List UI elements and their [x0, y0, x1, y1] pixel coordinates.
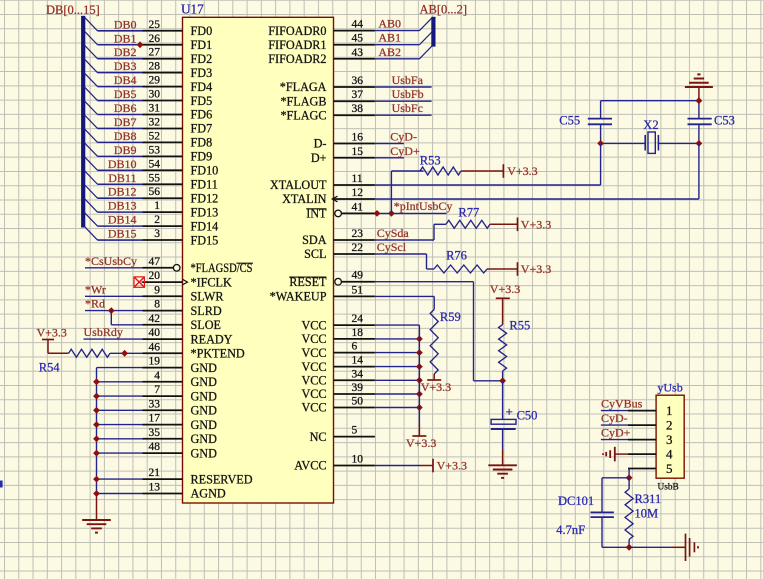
svg-text:XTALOUT: XTALOUT	[270, 178, 327, 192]
svg-text:FIFOADR2: FIFOADR2	[268, 52, 326, 66]
svg-text:D+: D+	[311, 151, 327, 165]
svg-text:FD11: FD11	[191, 177, 218, 191]
svg-text:R311: R311	[635, 492, 662, 506]
svg-text:VCC: VCC	[301, 401, 326, 415]
svg-text:AB1: AB1	[378, 31, 401, 45]
svg-text:R53: R53	[420, 154, 441, 168]
svg-text:GND: GND	[191, 404, 218, 418]
svg-text:3: 3	[666, 432, 673, 447]
svg-text:CyVBus: CyVBus	[601, 397, 643, 411]
svg-text:13: 13	[149, 482, 161, 494]
svg-text:44: 44	[352, 19, 364, 31]
svg-text:36: 36	[352, 75, 364, 87]
svg-text:DB13: DB13	[108, 199, 137, 213]
svg-text:FD12: FD12	[191, 191, 219, 205]
svg-text:1: 1	[154, 200, 160, 212]
svg-text:6: 6	[352, 341, 358, 353]
svg-text:DB12: DB12	[108, 185, 137, 199]
svg-text:FD6: FD6	[191, 108, 213, 122]
svg-text:DB4: DB4	[114, 73, 137, 87]
svg-text:R55: R55	[509, 318, 530, 332]
svg-text:*WAKEUP: *WAKEUP	[270, 290, 327, 304]
svg-text:DB2: DB2	[114, 45, 137, 59]
svg-text:VCC: VCC	[301, 346, 326, 360]
svg-text:DB9: DB9	[114, 143, 137, 157]
svg-text:31: 31	[149, 103, 161, 115]
svg-text:AB[0...2]: AB[0...2]	[420, 2, 468, 16]
svg-text:51: 51	[352, 284, 364, 296]
svg-text:R54: R54	[39, 361, 61, 375]
svg-text:*IFCLK: *IFCLK	[191, 275, 233, 289]
svg-text:10: 10	[352, 454, 364, 466]
svg-text:FD3: FD3	[191, 66, 213, 80]
svg-text:CyD-: CyD-	[601, 411, 628, 425]
svg-text:29: 29	[149, 75, 161, 87]
svg-text:XTALIN: XTALIN	[282, 192, 327, 206]
svg-text:34: 34	[352, 368, 364, 380]
svg-text:3: 3	[154, 228, 160, 240]
svg-text:23: 23	[352, 228, 364, 240]
svg-text:V+3.3: V+3.3	[437, 459, 467, 473]
svg-text:SLOE: SLOE	[191, 318, 221, 332]
svg-text:UsbFb: UsbFb	[392, 87, 424, 101]
svg-text:24: 24	[352, 313, 364, 325]
svg-text:8: 8	[154, 299, 160, 311]
svg-text:28: 28	[149, 61, 161, 73]
svg-text:12: 12	[352, 187, 364, 199]
svg-text:50: 50	[352, 396, 364, 408]
svg-text:5: 5	[352, 425, 358, 437]
svg-text:35: 35	[149, 427, 161, 439]
svg-text:R77: R77	[458, 205, 479, 219]
svg-text:FD9: FD9	[191, 150, 213, 164]
svg-text:27: 27	[149, 47, 161, 59]
svg-text:FD7: FD7	[191, 122, 213, 136]
svg-text:FD2: FD2	[191, 52, 213, 66]
svg-text:FD4: FD4	[191, 80, 213, 94]
svg-text:R59: R59	[440, 310, 461, 324]
svg-text:39: 39	[352, 382, 364, 394]
svg-text:GND: GND	[191, 389, 218, 403]
svg-text:22: 22	[352, 242, 364, 254]
svg-text:52: 52	[149, 130, 161, 142]
svg-text:UsbRdy: UsbRdy	[84, 325, 123, 339]
svg-text:7: 7	[154, 384, 160, 396]
svg-text:CyScl: CyScl	[377, 240, 407, 254]
svg-text:30: 30	[149, 89, 161, 101]
svg-text:37: 37	[352, 89, 364, 101]
svg-text:21: 21	[149, 467, 161, 479]
svg-text:*Wr: *Wr	[85, 282, 106, 296]
svg-text:FD13: FD13	[191, 205, 219, 219]
svg-text:RESERVED: RESERVED	[191, 472, 253, 486]
svg-text:DB0: DB0	[114, 17, 137, 31]
svg-text:45: 45	[352, 33, 364, 45]
svg-text:2: 2	[666, 418, 673, 433]
svg-text:40: 40	[149, 327, 161, 339]
svg-text:4: 4	[666, 447, 673, 462]
svg-text:DB15: DB15	[108, 227, 137, 241]
svg-text:V+3.3: V+3.3	[521, 262, 551, 276]
svg-text:READY: READY	[191, 332, 233, 346]
svg-text:19: 19	[149, 356, 161, 368]
svg-text:DC101: DC101	[558, 494, 594, 508]
svg-text:DB5: DB5	[114, 87, 137, 101]
svg-text:47: 47	[149, 256, 161, 268]
svg-text:DB3: DB3	[114, 59, 137, 73]
svg-text:SCL: SCL	[304, 247, 326, 261]
svg-text:FD1: FD1	[191, 38, 213, 52]
svg-text:U17: U17	[181, 2, 204, 17]
svg-text:9: 9	[154, 284, 160, 296]
svg-text:42: 42	[149, 313, 161, 325]
svg-text:*FLAGC: *FLAGC	[280, 108, 326, 122]
svg-text:56: 56	[149, 186, 161, 198]
svg-text:V+3.3: V+3.3	[37, 326, 67, 340]
svg-text:UsbB: UsbB	[658, 483, 679, 493]
svg-text:SLRD: SLRD	[191, 304, 222, 318]
svg-text:CySda: CySda	[377, 226, 410, 240]
svg-text:FD10: FD10	[191, 164, 219, 178]
svg-text:DB1: DB1	[114, 31, 137, 45]
svg-text:GND: GND	[191, 446, 218, 460]
svg-text:NC: NC	[310, 430, 327, 444]
svg-text:*FLAGA: *FLAGA	[280, 80, 327, 94]
svg-text:C53: C53	[714, 114, 735, 128]
svg-text:V+3.3: V+3.3	[406, 436, 436, 450]
svg-text:38: 38	[352, 103, 364, 115]
svg-text:DB8: DB8	[114, 129, 137, 143]
svg-text:V+3.3: V+3.3	[490, 282, 520, 296]
svg-text:DB11: DB11	[108, 171, 136, 185]
svg-text:DB[0...15]: DB[0...15]	[46, 3, 100, 17]
svg-text:10M: 10M	[635, 507, 659, 521]
svg-text:5: 5	[666, 461, 673, 476]
svg-text:AVCC: AVCC	[294, 459, 326, 473]
svg-text:55: 55	[149, 172, 161, 184]
svg-text:17: 17	[149, 413, 161, 425]
svg-text:16: 16	[352, 132, 364, 144]
svg-text:DB7: DB7	[114, 115, 137, 129]
svg-text:DB6: DB6	[114, 101, 137, 115]
svg-text:4: 4	[154, 370, 160, 382]
svg-text:SDA: SDA	[302, 233, 327, 247]
svg-text:DB14: DB14	[108, 213, 137, 227]
svg-text:48: 48	[149, 441, 161, 453]
svg-text:49: 49	[352, 270, 364, 282]
svg-text:FD0: FD0	[191, 24, 213, 38]
svg-text:*CsUsbCy: *CsUsbCy	[85, 254, 137, 268]
svg-text:X2: X2	[643, 118, 658, 132]
svg-text:20: 20	[149, 270, 161, 282]
svg-text:53: 53	[149, 144, 161, 156]
svg-text:VCC: VCC	[301, 387, 326, 401]
svg-text:GND: GND	[191, 361, 218, 375]
svg-text:CyD+: CyD+	[601, 426, 631, 440]
svg-text:AB2: AB2	[378, 45, 401, 59]
svg-text:C55: C55	[559, 114, 580, 128]
svg-text:46: 46	[149, 341, 161, 353]
svg-text:D-: D-	[314, 137, 327, 151]
svg-text:*FLAGB: *FLAGB	[280, 94, 326, 108]
svg-text:AGND: AGND	[191, 487, 226, 501]
svg-text:+: +	[506, 404, 513, 419]
svg-text:UsbFc: UsbFc	[392, 101, 423, 115]
svg-text:VCC: VCC	[301, 318, 326, 332]
svg-text:V+3.3: V+3.3	[507, 164, 537, 178]
svg-text:*pIntUsbCy: *pIntUsbCy	[394, 199, 453, 213]
svg-text:*PKTEND: *PKTEND	[191, 347, 245, 361]
svg-text:V+3.3: V+3.3	[421, 380, 451, 394]
svg-text:yUsb: yUsb	[657, 380, 682, 394]
svg-text:VCC: VCC	[301, 374, 326, 388]
svg-text:1: 1	[666, 403, 673, 418]
svg-text:CyD-: CyD-	[390, 130, 417, 144]
svg-text:14: 14	[352, 355, 364, 367]
svg-text:33: 33	[149, 398, 161, 410]
svg-text:41: 41	[352, 201, 364, 213]
svg-text:AB0: AB0	[378, 17, 401, 31]
svg-text:CyD+: CyD+	[390, 144, 420, 158]
svg-text:32: 32	[149, 116, 161, 128]
svg-text:GND: GND	[191, 375, 218, 389]
svg-text:UsbFa: UsbFa	[392, 73, 424, 87]
svg-text:FD14: FD14	[191, 219, 219, 233]
svg-text:FD15: FD15	[191, 233, 219, 247]
svg-text:FIFOADR0: FIFOADR0	[268, 24, 326, 38]
svg-text:VCC: VCC	[301, 360, 326, 374]
svg-text:GND: GND	[191, 418, 218, 432]
svg-text:18: 18	[352, 327, 364, 339]
svg-text:15: 15	[352, 146, 364, 158]
svg-text:54: 54	[149, 158, 161, 170]
svg-text:SLWR: SLWR	[191, 290, 225, 304]
svg-text:FD8: FD8	[191, 136, 213, 150]
svg-text:DB10: DB10	[108, 157, 137, 171]
svg-text:*Rd: *Rd	[85, 297, 105, 311]
svg-text:FIFOADR1: FIFOADR1	[268, 38, 326, 52]
svg-text:GND: GND	[191, 432, 218, 446]
svg-text:25: 25	[149, 19, 161, 31]
svg-text:2: 2	[154, 214, 160, 226]
svg-text:VCC: VCC	[301, 332, 326, 346]
svg-text:V+3.3: V+3.3	[521, 218, 551, 232]
svg-text:26: 26	[149, 33, 161, 45]
svg-text:C50: C50	[517, 408, 538, 422]
svg-text:11: 11	[352, 173, 363, 185]
svg-text:R76: R76	[446, 249, 467, 263]
svg-text:FD5: FD5	[191, 94, 213, 108]
svg-text:43: 43	[352, 47, 364, 59]
svg-text:4.7nF: 4.7nF	[556, 523, 585, 537]
